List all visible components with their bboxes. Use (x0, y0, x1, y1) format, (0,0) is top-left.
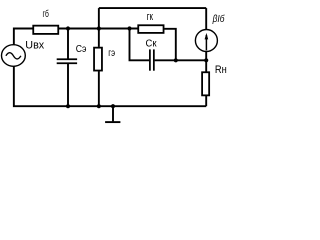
svg-text:Сэ: Сэ (76, 44, 87, 55)
svg-text:Rн: Rн (215, 64, 227, 76)
svg-text:Ск: Ск (146, 39, 157, 50)
svg-text:гэ: гэ (108, 48, 115, 59)
svg-text:βIб: βIб (212, 13, 225, 25)
svg-text:гк: гк (147, 11, 153, 23)
svg-text:Uвх: Uвх (25, 40, 44, 52)
svg-text:гб: гб (43, 8, 49, 20)
